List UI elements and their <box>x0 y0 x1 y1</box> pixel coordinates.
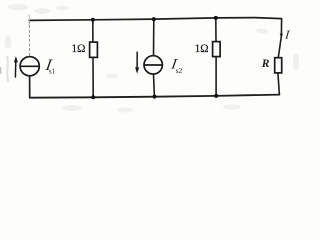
junction dot: bottom of branch 4 <box>214 94 218 98</box>
current source Is2 (circle with bar) <box>144 56 162 74</box>
svg-text:s1: s1 <box>49 68 56 76</box>
resistor 1 ohm (left) <box>90 42 98 57</box>
junction dot: bottom of branch 2 <box>91 95 95 99</box>
arrow: reference direction of Is1 (up) <box>14 61 16 78</box>
svg-text:1Ω: 1Ω <box>195 43 209 55</box>
svg-text:s2: s2 <box>176 66 183 75</box>
wire: branch 2 lower segment <box>92 57 94 97</box>
wire: branch 3 lower segment <box>153 74 156 97</box>
wire: branch 4 lower segment <box>215 57 217 96</box>
junction dot: top of branch 3 <box>152 17 156 21</box>
wire: bottom bus from left branch to right branch <box>30 95 280 98</box>
junction dot: top of branch 2 <box>91 18 95 22</box>
resistor 1 ohm (right) <box>213 42 221 57</box>
current source Is1 (circle with bar) <box>20 57 39 76</box>
wire: branch 4 upper segment <box>215 18 217 42</box>
resistor R <box>275 58 282 73</box>
arrow: reference direction of Is2 (down) <box>136 52 138 69</box>
wire: right branch upper segment <box>278 19 281 58</box>
wire: top bus from left branch to right branch <box>29 18 281 21</box>
edge smudge (scan artifact at left margin) <box>7 56 8 82</box>
arrow: current I (down) on right branch <box>280 34 283 38</box>
svg-text:R: R <box>261 58 270 70</box>
wire: branch 2 upper segment <box>92 19 94 42</box>
wire: right branch lower segment <box>278 73 280 95</box>
paper noise (very light scan mottle) <box>5 4 300 113</box>
wire: left branch upper segment (faint in scan) <box>28 20 30 56</box>
scan artifact: faint tick at top-left corner <box>28 15 30 27</box>
junction dot: top of branch 4 <box>214 16 218 20</box>
junction dot: bottom of branch 3 <box>153 95 157 99</box>
svg-text:1Ω: 1Ω <box>72 43 86 55</box>
wire: left branch lower segment <box>29 76 31 98</box>
wire: branch 3 upper segment <box>153 19 155 56</box>
